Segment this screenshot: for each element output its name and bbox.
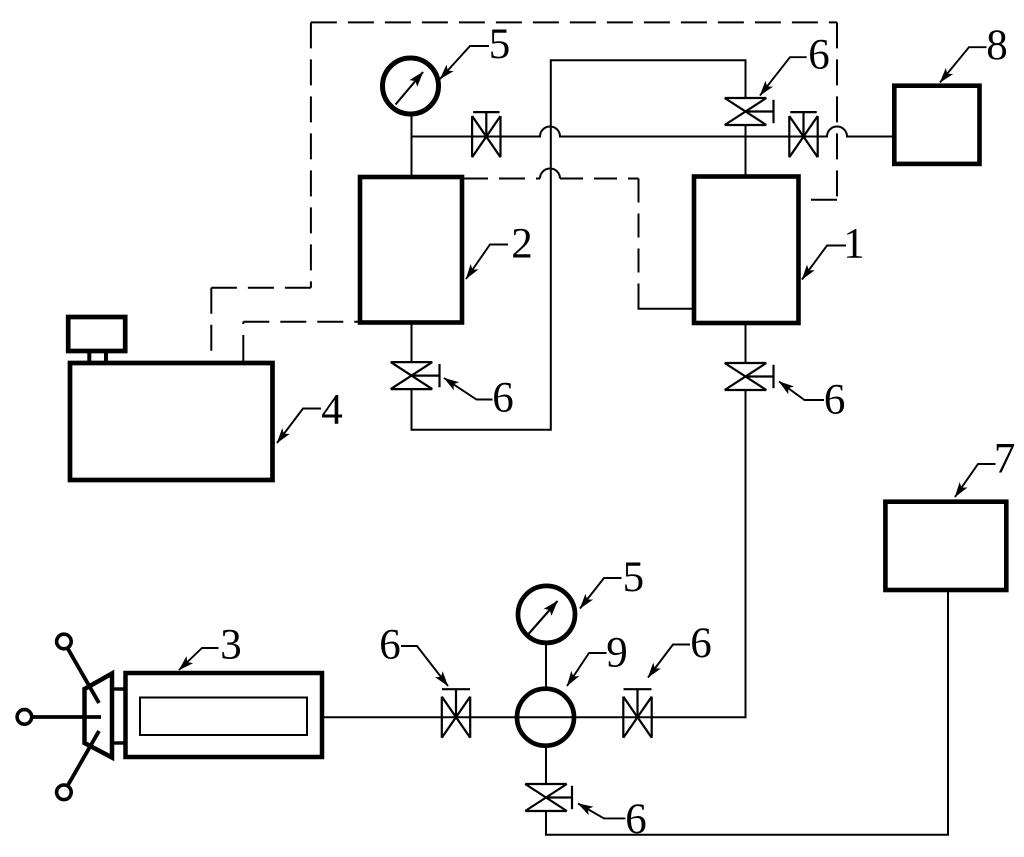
hand pump 3 knob middle (17, 710, 32, 725)
hand pump 3 knob lower (57, 785, 72, 800)
wire: gauge 5b stem to separator 9 (545, 614, 547, 717)
box 2 (cylinder) (360, 177, 462, 323)
valve 6 (left of separator) (442, 689, 470, 738)
hand pump 3 knob upper (57, 634, 72, 649)
svg-text:6: 6 (625, 796, 647, 843)
solid link elbow into box 1 left side (639, 287, 694, 309)
label 4 (277, 387, 343, 444)
hand pump 3 spoke lower (64, 731, 99, 792)
svg-text:6: 6 (690, 620, 712, 667)
label 3 (179, 622, 242, 671)
label 6 (top valve) (760, 32, 830, 96)
pressure gauge 5a (383, 58, 439, 114)
dashed link tank 4 to box 2 (vertical riser) (242, 322, 244, 361)
valve 6 (top, above box 1) (725, 98, 774, 125)
wire: separator 9 down to bottom valve (545, 746, 547, 784)
wire through separator 9 (518, 716, 574, 718)
hand pump 3 spoke upper (64, 642, 99, 703)
valve 6 (right of separator) (623, 689, 651, 738)
label 9 (567, 629, 628, 686)
wire: gauge line y=136.5 with hops, to box 8 (412, 127, 895, 137)
box 7 (885, 502, 1006, 590)
svg-text:6: 6 (808, 32, 830, 79)
dashed enclosure left edge (310, 22, 312, 287)
valve 6 (below box 1) (725, 363, 774, 390)
dashed link box 2 to box 1 (horizontal, hops wire) (462, 178, 540, 180)
valve 6 (below separator) (525, 784, 572, 811)
hand pump 3 inner window (140, 698, 307, 736)
hand pump 3 cone (85, 674, 113, 758)
svg-text:5: 5 (623, 554, 645, 601)
svg-text:3: 3 (220, 622, 242, 669)
svg-text:2: 2 (511, 220, 533, 267)
dashed enclosure right edge (836, 22, 838, 199)
wire: box 2 drain loop up and over to valve 6 top (412, 60, 746, 430)
label 7 (955, 435, 1015, 497)
dashed link enclosure to box 1 right side (799, 199, 838, 201)
label 8 (940, 22, 1008, 83)
dashed link enclosure corner to tank 4 (horizontal) (211, 287, 311, 289)
svg-text:4: 4 (321, 387, 343, 434)
pressure gauge 5b (518, 586, 575, 643)
svg-text:7: 7 (994, 435, 1016, 482)
dashed link tank 4 to box 2 (horizontal) (243, 321, 360, 323)
label 5 (bottom gauge) (580, 554, 644, 609)
valve 6 (below box 2) (391, 362, 440, 389)
wire: bottom valve across to box 7 (546, 590, 948, 835)
label 6 (bottom valve) (578, 796, 647, 843)
dashed enclosure top edge (311, 21, 837, 23)
tank 4 cap box (68, 317, 125, 351)
hand pump 3 spoke middle (25, 715, 101, 719)
label 6 (right of separator) (648, 620, 712, 678)
label 6 (below box 2) (444, 375, 514, 422)
valve (gauge line) (472, 112, 500, 157)
label 6 (below box 1) (779, 377, 845, 424)
box 8 (894, 86, 979, 164)
label 5 (top gauge) (440, 21, 510, 79)
svg-text:6: 6 (824, 377, 846, 424)
wire: box 1 drain down and across manifold to pump 3 (322, 390, 746, 717)
tank 4 body (70, 363, 273, 480)
dashed link to tank 4 (vertical drop) (210, 288, 212, 361)
dashed link vertical segment toward box 1 (638, 179, 640, 288)
label 1 (802, 220, 865, 279)
svg-text:6: 6 (492, 375, 514, 422)
svg-text:1: 1 (843, 220, 865, 267)
label 2 (466, 220, 533, 279)
hand pump 3 body (126, 673, 323, 757)
box 1 (cylinder) (694, 177, 799, 324)
wire: valve 6 top down into box 1 top (745, 125, 747, 177)
svg-text:9: 9 (606, 629, 628, 676)
tank 4 cap legs (89, 351, 106, 363)
svg-text:5: 5 (489, 21, 511, 68)
svg-text:8: 8 (986, 22, 1008, 69)
label 6 (left of separator) (379, 622, 448, 687)
separator vessel 9 (517, 689, 574, 746)
hand pump 3 flange lines (112, 689, 125, 743)
wire: box 2 bottom to its valve (411, 323, 413, 363)
wire: gauge 5a stem into box 2 top (411, 86, 413, 177)
hop of dashed link over vertical wire (540, 169, 560, 179)
wire: box 1 bottom to its valve (745, 323, 747, 363)
svg-text:6: 6 (379, 622, 401, 669)
valve (to box 8) (789, 112, 817, 157)
